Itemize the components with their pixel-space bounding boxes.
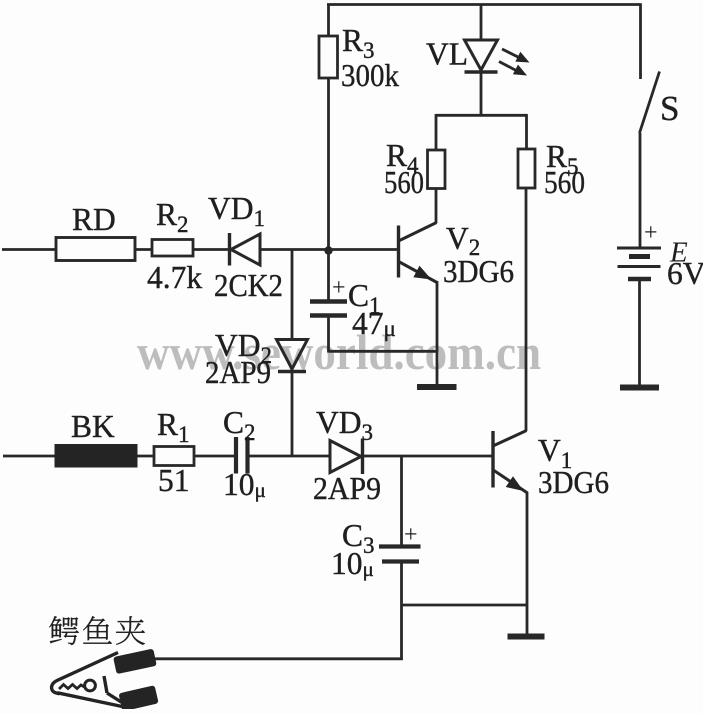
wire RD to R2 <box>135 248 152 251</box>
resistor R5 <box>518 149 535 188</box>
svg-text:S: S <box>660 89 679 128</box>
wire C3 bottom lead <box>400 562 403 660</box>
label eyujia (alligator clip text) <box>49 616 79 645</box>
svg-text:3DG6: 3DG6 <box>538 465 609 500</box>
svg-text:+: + <box>404 522 418 548</box>
diode VD3 triangle <box>330 441 361 473</box>
svg-text:RD: RD <box>72 202 116 237</box>
capacitor C2 left plate <box>234 437 238 474</box>
wire C1 bottom lead <box>327 317 330 353</box>
transistor V1 emitter <box>494 471 528 494</box>
diode VD3 cathode bar <box>361 439 364 475</box>
wire node to C1 <box>327 250 330 300</box>
alligator clip pivot screw <box>85 680 96 691</box>
LED VL light arrow 1 <box>502 49 522 59</box>
resistor R2 <box>152 240 193 257</box>
battery E plate 4 short <box>628 277 651 282</box>
svg-text:+: + <box>644 220 658 246</box>
capacitor C3 top plate <box>379 544 421 548</box>
wire C2 to VD3 <box>250 455 331 458</box>
wire node to V2 base <box>329 248 397 251</box>
wire RD row input <box>2 248 56 251</box>
svg-text:VL: VL <box>426 37 468 72</box>
ground V1 emitter <box>508 634 545 640</box>
LED VL light arrow 2 <box>499 62 519 73</box>
wire top rail <box>327 3 642 6</box>
wire R4 to V2 collector <box>435 188 438 223</box>
wire BK to R1 <box>137 455 154 458</box>
wire R5 top lead <box>525 114 528 149</box>
battery E plate 3 long <box>618 265 661 268</box>
battery E plate 2 short <box>629 254 650 259</box>
resistor R4 <box>428 150 446 189</box>
diode VD1 triangle <box>231 234 260 265</box>
node A junction dot <box>324 246 332 254</box>
probe BK body <box>55 445 137 468</box>
capacitor C1 top plate <box>310 299 347 303</box>
wire VD3 to V1 base <box>362 455 492 458</box>
svg-text:560: 560 <box>544 165 585 200</box>
wire R3 top lead <box>327 4 330 37</box>
wire C3 top lead <box>400 456 403 546</box>
ground battery <box>620 385 659 391</box>
svg-text:3DG6: 3DG6 <box>443 254 514 289</box>
wire V1 emitter down <box>526 492 529 634</box>
diode VD1 cathode bar <box>228 233 231 266</box>
alligator clip upper handle <box>113 649 157 675</box>
transistor V2 collector <box>400 223 437 241</box>
capacitor C2 right plate <box>245 437 249 474</box>
wire V2 emitter down <box>436 281 439 385</box>
transistor V2 base bar <box>397 226 400 278</box>
svg-text:2AP9: 2AP9 <box>205 355 271 390</box>
battery E plate 1 long <box>617 247 661 250</box>
ground V2 emitter <box>417 384 457 390</box>
transistor V1 base bar <box>491 431 494 488</box>
svg-text:6V: 6V <box>667 256 703 291</box>
wire VD1 to node <box>260 248 329 251</box>
wire BK input <box>3 455 56 458</box>
LED VL cathode bar <box>465 70 498 74</box>
switch S blade <box>640 72 660 134</box>
wire R5 to V1 collector <box>525 188 528 431</box>
svg-text:51: 51 <box>158 463 190 498</box>
wire tee R4-R5 <box>436 114 527 117</box>
svg-text:560: 560 <box>384 165 424 200</box>
wire battery to ground <box>638 281 641 385</box>
wire clip to C3 <box>153 657 403 660</box>
probe RD <box>56 238 135 261</box>
alligator clip jaws <box>52 653 118 694</box>
svg-text:2AP9: 2AP9 <box>313 471 381 506</box>
resistor R3 <box>319 36 338 78</box>
wire VL top lead <box>480 4 483 41</box>
transistor V2 emitter <box>400 262 438 283</box>
wire C1 to V2 emitter <box>329 350 438 353</box>
resistor R1 <box>154 447 194 466</box>
wire R1 to C2 <box>194 455 234 458</box>
svg-text:4.7k: 4.7k <box>147 260 202 295</box>
diode VD2 cathode bar <box>278 370 306 373</box>
wire right rail to switch <box>639 4 642 80</box>
alligator clip lower handle <box>118 685 158 711</box>
wire R4 top lead <box>435 114 438 150</box>
capacitor C1 bottom plate <box>310 313 347 317</box>
wire VD2 top lead <box>291 250 294 339</box>
svg-text:+: + <box>332 275 346 301</box>
svg-text:300k: 300k <box>341 58 399 93</box>
wire VL to tee <box>480 72 483 115</box>
wire C3 to V1 emitter junction <box>402 604 528 607</box>
wire switch to battery <box>639 133 642 247</box>
transistor V1 collector <box>494 431 527 446</box>
capacitor C3 bottom plate <box>382 559 419 563</box>
wire R3 to node <box>327 78 330 252</box>
wire VD2 bottom lead <box>291 372 294 457</box>
LED VL triangle <box>465 40 498 70</box>
svg-text:BK: BK <box>71 409 115 444</box>
svg-text:2CK2: 2CK2 <box>214 268 283 303</box>
diode VD2 triangle <box>277 340 308 370</box>
wire R2 to VD1 <box>193 248 229 251</box>
